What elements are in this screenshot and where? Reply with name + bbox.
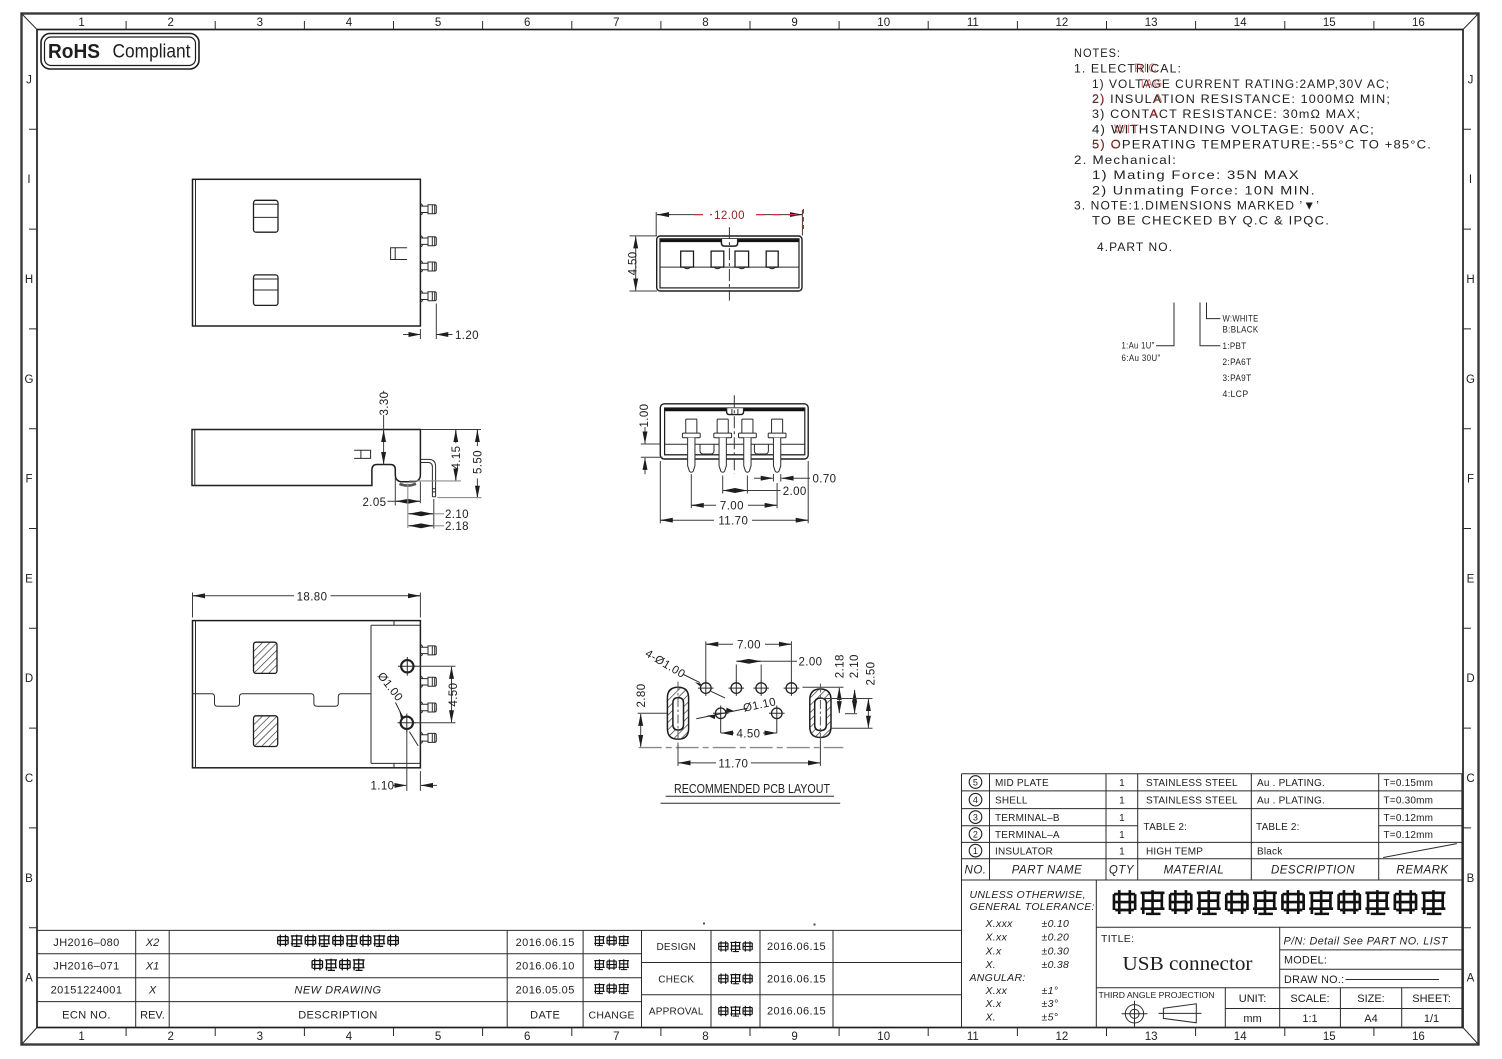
left oval pad xyxy=(667,682,688,746)
svg-text:TABLE 2:: TABLE 2: xyxy=(1144,822,1188,833)
latch window upper xyxy=(254,200,279,232)
svg-text:ANGULAR:: ANGULAR: xyxy=(969,972,1026,984)
svg-text:3) CONTACT RESISTANCE: 30mΩ MA: 3) CONTACT RESISTANCE: 30mΩ MAX; xyxy=(1092,107,1361,121)
svg-text:1: 1 xyxy=(1119,846,1125,857)
pin 3 xyxy=(420,261,436,272)
svg-text:F: F xyxy=(25,474,32,486)
svg-text:11.70: 11.70 xyxy=(718,758,748,770)
svg-text:J: J xyxy=(26,74,32,86)
hatched window upper xyxy=(254,642,278,673)
NOTES xyxy=(1074,46,1432,254)
svg-text:±0.38: ±0.38 xyxy=(1042,959,1070,971)
rear pin 1 xyxy=(682,419,700,472)
svg-text:4:LCP: 4:LCP xyxy=(1223,389,1249,400)
svg-text:USB connector: USB connector xyxy=(1123,953,1253,975)
pin 1 xyxy=(420,645,436,656)
svg-text:2) INSULATION RESISTANCE: 1000: 2) INSULATION RESISTANCE: 1000MΩ MIN; xyxy=(1092,92,1391,106)
column ticks top/bottom xyxy=(126,21,1374,1036)
svg-text:2.80: 2.80 xyxy=(636,684,648,708)
dim 1.20 xyxy=(403,304,479,342)
dim 4.50 xyxy=(627,236,657,291)
rear pin 4 xyxy=(768,419,786,472)
svg-text:3:PA9T: 3:PA9T xyxy=(1223,373,1252,384)
stray plot dots xyxy=(703,922,705,924)
approver names xyxy=(718,941,753,1016)
svg-text:X1: X1 xyxy=(145,961,159,973)
svg-text:H: H xyxy=(1466,274,1474,286)
contact 4 xyxy=(766,251,778,269)
svg-text:±3°: ±3° xyxy=(1042,998,1059,1010)
rear pin 3 xyxy=(739,419,757,472)
dim 1.00 left xyxy=(639,404,663,475)
top edge extension right xyxy=(420,429,481,431)
title grid xyxy=(962,880,1462,1028)
body left double edge xyxy=(195,621,197,768)
svg-text:DATE: DATE xyxy=(530,1010,560,1022)
svg-text:X.xxx: X.xxx xyxy=(985,918,1014,930)
svg-text:2.18: 2.18 xyxy=(835,654,847,678)
svg-text:T=0.12mm: T=0.12mm xyxy=(1384,813,1434,824)
svg-text:9: 9 xyxy=(791,17,797,29)
pin 2 xyxy=(420,236,436,247)
svg-text:8: 8 xyxy=(702,1031,708,1043)
svg-text:MATERIAL: MATERIAL xyxy=(1164,865,1225,877)
top notch xyxy=(721,239,737,246)
svg-text:12: 12 xyxy=(1056,1031,1069,1043)
svg-text:NO.: NO. xyxy=(965,865,987,877)
svg-text:6:Au 30U”: 6:Au 30U” xyxy=(1122,353,1161,364)
svg-text:X.x: X.x xyxy=(985,998,1003,1010)
tolerance box xyxy=(969,889,1095,1024)
main centerline xyxy=(639,747,844,749)
svg-text:2: 2 xyxy=(167,1031,173,1043)
svg-text:UNIT:: UNIT: xyxy=(1239,993,1267,1005)
svg-text:2016.05.05: 2016.05.05 xyxy=(516,985,575,997)
RoHS stamp inner box xyxy=(45,37,196,66)
svg-text:4: 4 xyxy=(973,795,978,805)
row 5 xyxy=(969,776,1433,789)
revision grid xyxy=(37,880,962,1028)
VIEW REAR xyxy=(639,395,837,527)
svg-text:4: 4 xyxy=(346,1031,353,1043)
svg-text:TO BE CHECKED BY Q.C & IPQC.: TO BE CHECKED BY Q.C & IPQC. xyxy=(1092,214,1330,228)
top notch xyxy=(727,408,744,414)
dim 11.70 xyxy=(660,461,808,527)
svg-text:NOTES:: NOTES: xyxy=(1074,46,1121,60)
svg-text:GENERAL TOLERANCE:: GENERAL TOLERANCE: xyxy=(970,901,1095,913)
parting line with notches xyxy=(193,694,372,707)
svg-text:E: E xyxy=(1467,573,1475,585)
hatched window lower xyxy=(254,716,278,747)
bom grid xyxy=(962,774,1462,1028)
dim 0.70 xyxy=(754,473,836,485)
svg-text:6: 6 xyxy=(524,1031,530,1043)
row ticks left/right xyxy=(29,129,1471,927)
svg-text:6: 6 xyxy=(524,17,530,29)
svg-text:PART NAME: PART NAME xyxy=(1012,865,1083,877)
approval dates xyxy=(767,941,826,1018)
projection cone symbol xyxy=(1159,1004,1202,1023)
svg-text:UNLESS OTHERWISE,: UNLESS OTHERWISE, xyxy=(970,889,1086,901)
svg-text:2016.06.15: 2016.06.15 xyxy=(767,973,826,985)
date column xyxy=(516,937,575,1022)
svg-text:3: 3 xyxy=(257,17,263,29)
svg-text:2.10: 2.10 xyxy=(445,509,469,521)
top hole 3 xyxy=(753,680,769,696)
dim 3.30 xyxy=(379,391,391,465)
svg-text:HIGH TEMP: HIGH TEMP xyxy=(1146,846,1203,857)
svg-text:1.10: 1.10 xyxy=(371,781,395,793)
svg-text:11: 11 xyxy=(967,17,979,29)
svg-text:T=0.30mm: T=0.30mm xyxy=(1384,796,1434,807)
svg-text:Ø1.00: Ø1.00 xyxy=(375,670,405,704)
tongue divider xyxy=(660,266,799,268)
svg-text:1.00: 1.00 xyxy=(639,404,651,428)
VIEW TOP xyxy=(193,179,479,341)
svg-text:TABLE 2:: TABLE 2: xyxy=(1256,822,1300,833)
svg-text:A: A xyxy=(25,973,33,985)
tree line color xyxy=(1207,303,1221,319)
svg-text:1: 1 xyxy=(973,846,978,856)
svg-text:JH2016–080: JH2016–080 xyxy=(53,937,119,949)
side view body outline xyxy=(192,430,420,486)
svg-text:5) OPERATING TEMPERATURE:-55°C: 5) OPERATING TEMPERATURE:-55°C TO +85°C. xyxy=(1092,138,1432,152)
hole label leader xyxy=(396,703,419,746)
top hole 4 xyxy=(784,680,800,696)
company name xyxy=(1113,890,1446,914)
svg-text:2016.06.15: 2016.06.15 xyxy=(516,937,575,949)
svg-text:1.20: 1.20 xyxy=(455,330,479,342)
shell outer xyxy=(657,236,802,291)
REVISION TABLE xyxy=(37,880,1095,1028)
svg-text:5: 5 xyxy=(435,1031,441,1043)
svg-text:1) Mating Force: 35N MAX: 1) Mating Force: 35N MAX xyxy=(1092,168,1300,182)
rear section divider xyxy=(371,621,420,768)
svg-text:1: 1 xyxy=(1119,830,1125,841)
svg-text:±0.20: ±0.20 xyxy=(1042,932,1070,944)
svg-text:mm: mm xyxy=(1243,1013,1261,1025)
svg-text:1. ELECTRICAL:: 1. ELECTRICAL: xyxy=(1074,62,1182,76)
svg-text:A: A xyxy=(1150,107,1159,121)
svg-text:5: 5 xyxy=(435,17,441,29)
svg-text:4.50: 4.50 xyxy=(737,728,761,740)
inner bottom line xyxy=(665,443,805,445)
svg-text:4-Ø1.00: 4-Ø1.00 xyxy=(643,648,687,681)
vertical centerline xyxy=(728,227,730,301)
svg-text:2:PA6T: 2:PA6T xyxy=(1223,357,1252,368)
remark slash xyxy=(1383,844,1457,858)
svg-text:C: C xyxy=(25,773,33,785)
svg-text:X: X xyxy=(148,985,157,997)
svg-text:1: 1 xyxy=(1119,778,1125,789)
svg-text:4: 4 xyxy=(346,17,353,29)
latch window lower xyxy=(254,275,279,306)
svg-text:5: 5 xyxy=(973,777,978,787)
svg-text:MODEL:: MODEL: xyxy=(1284,955,1327,967)
row 1 xyxy=(969,844,1283,857)
svg-text:1) VOLTAGE CURRENT RATING:2AMP: 1) VOLTAGE CURRENT RATING:2AMP,30V AC; xyxy=(1092,77,1390,91)
svg-text:7: 7 xyxy=(613,17,619,29)
row 4 xyxy=(969,793,1433,806)
BOM TABLE xyxy=(962,774,1462,1028)
svg-text:F: F xyxy=(1467,474,1474,486)
svg-text:JH2016–071: JH2016–071 xyxy=(53,961,119,973)
svg-text:2) Unmating Force: 10N MIN.: 2) Unmating Force: 10N MIN. xyxy=(1092,184,1316,198)
bom header xyxy=(965,865,1450,877)
svg-text:X.: X. xyxy=(985,959,997,971)
svg-text:3: 3 xyxy=(973,812,978,822)
svg-text:11: 11 xyxy=(967,1031,979,1043)
change column xyxy=(594,935,629,993)
body left double edge xyxy=(194,430,196,486)
svg-text:1: 1 xyxy=(1119,796,1125,807)
PARTNO TREE xyxy=(1122,303,1259,401)
svg-text:X2: X2 xyxy=(145,937,159,949)
svg-text:DRAW NO.:: DRAW NO.: xyxy=(1284,974,1344,986)
dim 1.10 xyxy=(371,730,438,793)
svg-text:SHELL: SHELL xyxy=(995,796,1028,807)
svg-text:T=0.12mm: T=0.12mm xyxy=(1384,830,1434,841)
svg-text:10: 10 xyxy=(877,17,890,29)
ROHS xyxy=(41,34,199,70)
svg-text:W:WHITE: W:WHITE xyxy=(1223,314,1259,325)
VIEW BOTTOM xyxy=(193,591,460,792)
svg-text:±0.10: ±0.10 xyxy=(1042,918,1070,930)
svg-text:15: 15 xyxy=(1323,1031,1336,1043)
svg-text:C: C xyxy=(1466,773,1474,785)
svg-text:APPROVAL: APPROVAL xyxy=(649,1007,704,1018)
svg-text:DESCRIPTION: DESCRIPTION xyxy=(1271,865,1355,877)
svg-text:2016.06.15: 2016.06.15 xyxy=(767,1006,826,1018)
svg-text:DESCRIPTION: DESCRIPTION xyxy=(298,1010,378,1022)
svg-text:2.50: 2.50 xyxy=(866,662,878,686)
svg-text:20151224001: 20151224001 xyxy=(51,985,123,997)
right oval pad xyxy=(810,684,831,744)
projection circle symbol xyxy=(1122,1001,1148,1027)
RoHS stamp outer box xyxy=(41,34,199,70)
dim 2.00 pcb xyxy=(736,657,822,682)
svg-text:B: B xyxy=(1467,873,1475,885)
svg-text:MID PLATE: MID PLATE xyxy=(995,778,1049,789)
inner top thick edge xyxy=(661,239,799,242)
svg-text:REMARK: REMARK xyxy=(1396,865,1449,877)
dim 12.00 red xyxy=(656,209,803,236)
dim 2.80 xyxy=(636,684,667,747)
dim 2.05 xyxy=(363,478,421,509)
svg-text:J: J xyxy=(1468,74,1474,86)
svg-text:D: D xyxy=(25,673,33,685)
rear pin 2 xyxy=(714,419,732,472)
svg-text:13: 13 xyxy=(1145,17,1158,29)
pin 4 xyxy=(420,291,436,302)
shell inner xyxy=(660,239,799,288)
svg-text:RoHS: RoHS xyxy=(48,40,100,63)
svg-text:14: 14 xyxy=(1234,17,1247,29)
svg-text:±1°: ±1° xyxy=(1042,985,1059,997)
svg-text:SIZE:: SIZE: xyxy=(1357,993,1385,1005)
pin 2 xyxy=(420,676,436,687)
svg-text:2: 2 xyxy=(973,829,978,839)
svg-text:TAG: TAG xyxy=(1139,77,1163,91)
body left double edge xyxy=(195,179,197,326)
svg-text:1: 1 xyxy=(78,17,84,29)
svg-text:10: 10 xyxy=(877,1031,890,1043)
svg-text:H: H xyxy=(25,274,33,286)
svg-text:QTY: QTY xyxy=(1109,865,1135,877)
svg-text:X.x: X.x xyxy=(985,945,1003,957)
svg-text:±5°: ±5° xyxy=(1042,1012,1059,1024)
standoff cutout 1 xyxy=(700,444,714,454)
VIEW PCB xyxy=(636,640,878,804)
svg-text:1: 1 xyxy=(78,1031,84,1043)
svg-text:1: 1 xyxy=(1119,813,1125,824)
top hole 2 xyxy=(729,680,745,696)
dim 2.00 xyxy=(723,476,807,498)
svg-text:7.00: 7.00 xyxy=(720,501,744,513)
svg-text:2.05: 2.05 xyxy=(363,497,387,509)
svg-text:4.PART NO.: 4.PART NO. xyxy=(1097,240,1173,254)
svg-text:5.50: 5.50 xyxy=(473,450,485,474)
svg-text:2016.06.10: 2016.06.10 xyxy=(516,961,575,973)
svg-text:2.18: 2.18 xyxy=(445,521,469,533)
svg-text:TITLE:: TITLE: xyxy=(1101,933,1134,945)
svg-text:B:BLACK: B:BLACK xyxy=(1223,325,1259,336)
dim 4.50 pcb xyxy=(721,728,777,740)
tree line material xyxy=(1200,303,1220,346)
svg-text:A: A xyxy=(1467,973,1475,985)
mid hole 1 xyxy=(713,706,729,734)
terminal stop detail xyxy=(354,450,371,458)
svg-text:0.70: 0.70 xyxy=(813,473,837,485)
svg-text:CHECK: CHECK xyxy=(658,974,694,985)
svg-text:NEW DRAWING: NEW DRAWING xyxy=(294,985,381,997)
svg-text:DESIGN: DESIGN xyxy=(657,942,697,953)
VIEW FRONT xyxy=(627,209,803,301)
svg-text:A: A xyxy=(1154,92,1163,106)
svg-text:Au . PLATING.: Au . PLATING. xyxy=(1257,796,1325,807)
dim 7.00 xyxy=(691,474,777,513)
label 4-O1.00 xyxy=(643,648,725,698)
svg-text:±0.30: ±0.30 xyxy=(1042,945,1070,957)
svg-text:STAINLESS STEEL: STAINLESS STEEL xyxy=(1146,778,1238,789)
svg-text:2): 2) xyxy=(1092,92,1105,106)
svg-text:8: 8 xyxy=(702,17,708,29)
svg-text:3.30: 3.30 xyxy=(379,392,391,416)
svg-text:TERMINAL–A: TERMINAL–A xyxy=(995,830,1060,841)
svg-text:2.00: 2.00 xyxy=(783,486,807,498)
dim 2.10 xyxy=(845,654,861,713)
svg-text:5) O: 5) O xyxy=(1092,137,1122,151)
svg-text:1:Au 1U”: 1:Au 1U” xyxy=(1122,341,1155,352)
svg-text:G: G xyxy=(25,374,34,386)
svg-text:12.00: 12.00 xyxy=(714,210,745,222)
svg-text:4.50: 4.50 xyxy=(627,251,639,275)
inner top thick edge xyxy=(665,408,804,411)
svg-text:16: 16 xyxy=(1412,1031,1425,1043)
svg-text:X.: X. xyxy=(985,1012,997,1024)
svg-text:CHANGE: CHANGE xyxy=(589,1010,635,1022)
description column xyxy=(277,935,399,947)
svg-text:13: 13 xyxy=(1145,1031,1158,1043)
dim 2.18 xyxy=(408,521,469,533)
svg-text:7.00: 7.00 xyxy=(737,640,761,652)
svg-text:SHEET:: SHEET: xyxy=(1412,993,1451,1005)
svg-text:B: B xyxy=(25,873,33,885)
svg-text:9: 9 xyxy=(791,1031,797,1043)
shell inner xyxy=(665,408,805,455)
svg-text:THIRD ANGLE PROJECTION: THIRD ANGLE PROJECTION xyxy=(1099,991,1215,1000)
svg-text:2016.06.15: 2016.06.15 xyxy=(767,941,826,953)
pin 3 xyxy=(420,702,436,713)
VIEW SIDE xyxy=(192,391,485,533)
vertical centerline xyxy=(733,395,735,473)
caption xyxy=(661,781,841,804)
svg-text:4.15: 4.15 xyxy=(451,446,463,470)
dim 2.50 xyxy=(821,662,878,729)
svg-text:7: 7 xyxy=(613,1031,619,1043)
label O1.10 xyxy=(696,696,777,719)
dim 18.80 xyxy=(193,591,421,617)
svg-text:I: I xyxy=(27,174,30,186)
red annotation marks xyxy=(1092,61,1163,151)
mount hole 1 xyxy=(398,657,417,676)
svg-text:A4: A4 xyxy=(1364,1013,1377,1025)
dim 11.70 pcb xyxy=(678,741,820,770)
svg-text:SCALE:: SCALE: xyxy=(1290,993,1329,1005)
dim 7.00 pcb xyxy=(706,640,792,682)
svg-text:X.xx: X.xx xyxy=(985,932,1008,944)
dim 2.18 xyxy=(803,654,847,713)
svg-text:RECOMMENDED PCB LAYOUT: RECOMMENDED PCB LAYOUT xyxy=(674,781,830,796)
svg-text:REV.: REV. xyxy=(140,1010,165,1022)
svg-text:2: 2 xyxy=(167,17,173,29)
svg-text:18.80: 18.80 xyxy=(297,591,328,603)
svg-text:P/N: Detail See PART NO. LIST: P/N: Detail See PART NO. LIST xyxy=(1284,936,1449,948)
svg-text:Au . PLATING.: Au . PLATING. xyxy=(1257,778,1325,789)
mid hole 2 xyxy=(769,706,785,734)
svg-text:1:PBT: 1:PBT xyxy=(1223,341,1247,352)
svg-text:12: 12 xyxy=(1056,17,1069,29)
contact 2 xyxy=(711,251,724,269)
top view body xyxy=(193,179,421,326)
dim 4.15 xyxy=(409,430,463,481)
svg-text:E: E xyxy=(25,573,33,585)
standoff cutout 2 xyxy=(754,444,768,454)
svg-text:STAINLESS STEEL: STAINLESS STEEL xyxy=(1146,796,1238,807)
svg-text:2. Mechanical:: 2. Mechanical: xyxy=(1074,153,1177,167)
svg-text:16: 16 xyxy=(1412,17,1425,29)
svg-text:2.10: 2.10 xyxy=(849,654,861,678)
svg-text:INSULATOR: INSULATOR xyxy=(995,846,1053,857)
svg-text:TERMINAL–B: TERMINAL–B xyxy=(995,813,1060,824)
svg-text:Black: Black xyxy=(1257,846,1283,857)
svg-text:G: G xyxy=(1466,374,1475,386)
svg-text:3. NOTE:1.DIMENSIONS MARKED ’▼: 3. NOTE:1.DIMENSIONS MARKED ’▼’ xyxy=(1074,199,1320,213)
svg-text:Compliant: Compliant xyxy=(113,42,192,63)
svg-text:I: I xyxy=(1469,174,1472,186)
svg-text:3: 3 xyxy=(257,1031,263,1043)
shell outer xyxy=(660,404,808,459)
svg-text:15: 15 xyxy=(1323,17,1336,29)
approval block labels xyxy=(649,942,704,1018)
contact 3 xyxy=(735,251,749,269)
dim 4.50 right xyxy=(414,666,460,723)
bottom wall line xyxy=(665,454,805,456)
svg-text:1/1: 1/1 xyxy=(1424,1013,1439,1025)
svg-text:14: 14 xyxy=(1234,1031,1247,1043)
row 3 xyxy=(969,811,1433,824)
svg-text:2.00: 2.00 xyxy=(799,657,823,669)
